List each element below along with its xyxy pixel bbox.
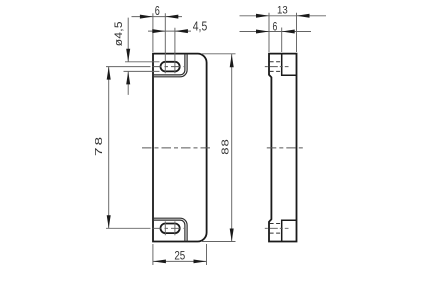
dim 6 side: arrows (256, 30, 269, 34)
dim 6 top: dimension line (132, 16, 183, 18)
side view mid centerline (267, 147, 303, 149)
side view hidden slot lines bottom (270, 224, 282, 234)
dim 13: dimension line (240, 15, 327, 17)
dim 4,5 top: dimension line (148, 30, 191, 32)
front mid centerline (142, 147, 212, 149)
dim 88: extension lines (202, 54, 236, 242)
dim 25: dimension line (153, 260, 207, 262)
svg-text:78: 78 (92, 135, 104, 156)
bottom slot arc-center ticks (165, 221, 175, 235)
svg-text:6: 6 (155, 5, 160, 19)
svg-text:6: 6 (272, 21, 277, 34)
front view outline (153, 54, 207, 242)
side view hidden slot lines top (270, 62, 282, 72)
bottom slot boss inner contour (153, 220, 185, 241)
dim dia 4,5: extension lines (124, 62, 160, 72)
dim 6 side: dimension line (240, 31, 312, 33)
top slot obround (161, 62, 180, 72)
dim dia 4,5: dimension line with outside arrows (127, 18, 129, 95)
side view bottom step edge (282, 220, 297, 241)
svg-text:88: 88 (220, 138, 231, 155)
svg-text:13: 13 (277, 5, 288, 17)
bottom slot centerline (106, 227, 151, 229)
side view top step edge (282, 54, 297, 76)
dim 25: extension lines (153, 244, 207, 265)
svg-text:4,5: 4,5 (193, 20, 208, 34)
bottom slot obround (160, 224, 179, 234)
dim 88: arrows (230, 54, 234, 67)
dim 13: extension lines (269, 13, 297, 52)
dim 6 top: extension lines (153, 13, 175, 73)
side view top slot centerline (265, 66, 289, 68)
dim 13: arrows (256, 14, 269, 18)
dim 25: arrows (inside) (153, 260, 166, 264)
top slot boss inner contour (153, 54, 185, 75)
side view bottom slot centerline (265, 227, 289, 229)
top slot boss outer contour (153, 54, 187, 77)
dim 6 top: arrows (140, 15, 153, 19)
dim 4,5 top: arrows (152, 29, 165, 33)
bottom slot boss outer contour (153, 218, 187, 241)
dim 78: arrows (107, 67, 111, 80)
dim 78: dimension line (108, 67, 110, 229)
top slot centerline (106, 66, 151, 68)
side view outline (269, 54, 297, 242)
dim 88: dimension line (231, 54, 233, 242)
svg-text:25: 25 (174, 250, 185, 263)
svg-text:ø4,5: ø4,5 (113, 21, 125, 46)
